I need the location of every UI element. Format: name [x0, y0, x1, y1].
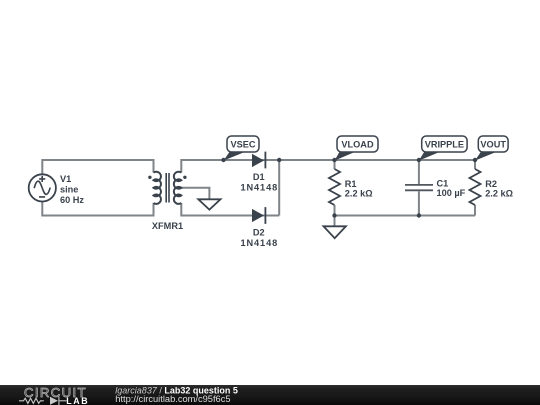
svg-text:XFMR1: XFMR1	[152, 221, 183, 231]
svg-text:2.2 kΩ: 2.2 kΩ	[345, 188, 373, 198]
svg-text:LAB: LAB	[66, 395, 89, 405]
svg-text:R2: R2	[485, 179, 497, 189]
svg-text:60 Hz: 60 Hz	[60, 195, 84, 205]
svg-text:2.2 kΩ: 2.2 kΩ	[485, 188, 513, 198]
svg-text:1N4148: 1N4148	[241, 183, 279, 193]
svg-text:D2: D2	[253, 228, 265, 238]
svg-text:C1: C1	[437, 179, 449, 189]
svg-text:sine: sine	[60, 184, 78, 194]
svg-text:D1: D1	[253, 172, 265, 182]
svg-text:100 µF: 100 µF	[437, 188, 466, 198]
svg-text:V1: V1	[60, 174, 71, 184]
svg-text:1N4148: 1N4148	[241, 238, 279, 248]
svg-text:VRIPPLE: VRIPPLE	[425, 139, 464, 149]
svg-text:http://circuitlab.com/c95f6c5: http://circuitlab.com/c95f6c5	[115, 394, 230, 404]
svg-text:VLOAD: VLOAD	[341, 139, 374, 149]
svg-text:VSEC: VSEC	[230, 139, 255, 149]
svg-text:R1: R1	[345, 179, 357, 189]
svg-text:VOUT: VOUT	[480, 139, 506, 149]
